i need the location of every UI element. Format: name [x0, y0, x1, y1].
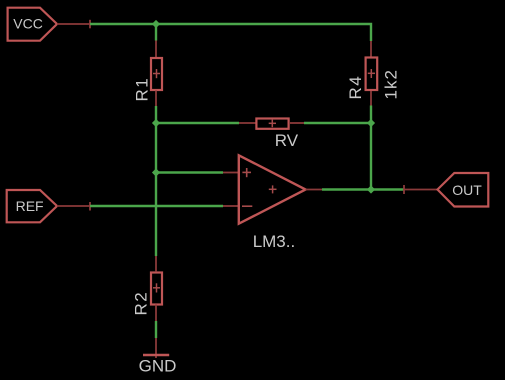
svg-text:LM3..: LM3.. [253, 232, 296, 251]
svg-text:RV: RV [275, 131, 299, 150]
ground bar [143, 354, 169, 357]
pin R1 top [155, 41, 157, 58]
junction node plus input [152, 168, 160, 176]
svg-text:1k2: 1k2 [382, 69, 401, 99]
pin op-amp output [306, 189, 322, 191]
pin R4 bottom [370, 91, 372, 106]
junction node RV left [152, 119, 160, 127]
junction output node [367, 185, 375, 193]
ground symbol pin [155, 338, 157, 358]
op-amp plus input sign [242, 168, 251, 177]
op-amp minus input sign [242, 205, 252, 207]
resistor R4 [366, 58, 378, 91]
pin op-amp minus input [223, 205, 239, 207]
pin op-amp plus input [223, 172, 239, 174]
svg-text:REF: REF [16, 198, 44, 214]
resistor R1 [151, 58, 162, 90]
op-amp center plus sign [269, 185, 277, 193]
svg-text:GND: GND [139, 357, 177, 376]
svg-text:R2: R2 [132, 291, 151, 316]
pin R2 bottom [155, 305, 157, 322]
flag OUT [438, 173, 489, 207]
wire plus input [156, 171, 223, 173]
pin R4 top [370, 41, 372, 57]
resistor R2 [151, 273, 162, 305]
svg-text:OUT: OUT [452, 182, 482, 198]
wire RV right [304, 122, 371, 124]
svg-text:R1: R1 [133, 77, 152, 102]
pin RV left [239, 122, 256, 124]
pin R2 top [155, 256, 157, 271]
wire VCC top horizontal to R4 corner [90, 24, 371, 41]
pin of REF flag [57, 202, 90, 211]
svg-text:R4: R4 [346, 75, 365, 100]
wire output [322, 188, 404, 190]
wire left rail R1 to R2 [155, 106, 157, 256]
wire right rail R4 to output [370, 106, 372, 190]
wire REF to minus input [90, 205, 223, 207]
resistor RV [256, 119, 288, 129]
op-amp U1 triangle [239, 155, 306, 223]
junction above R1 [152, 20, 160, 28]
wire VCC down to R1 [155, 24, 157, 41]
junction node RV right [367, 119, 375, 127]
supply flag REF [7, 190, 57, 222]
wire R2 to GND [155, 321, 157, 338]
pin of OUT flag [404, 185, 438, 194]
supply flag VCC [8, 8, 57, 41]
wire RV left [156, 122, 239, 124]
pin of VCC flag [57, 20, 90, 29]
svg-text:VCC: VCC [13, 16, 43, 32]
pin R1 bottom [155, 91, 157, 107]
pin RV right [290, 122, 304, 124]
